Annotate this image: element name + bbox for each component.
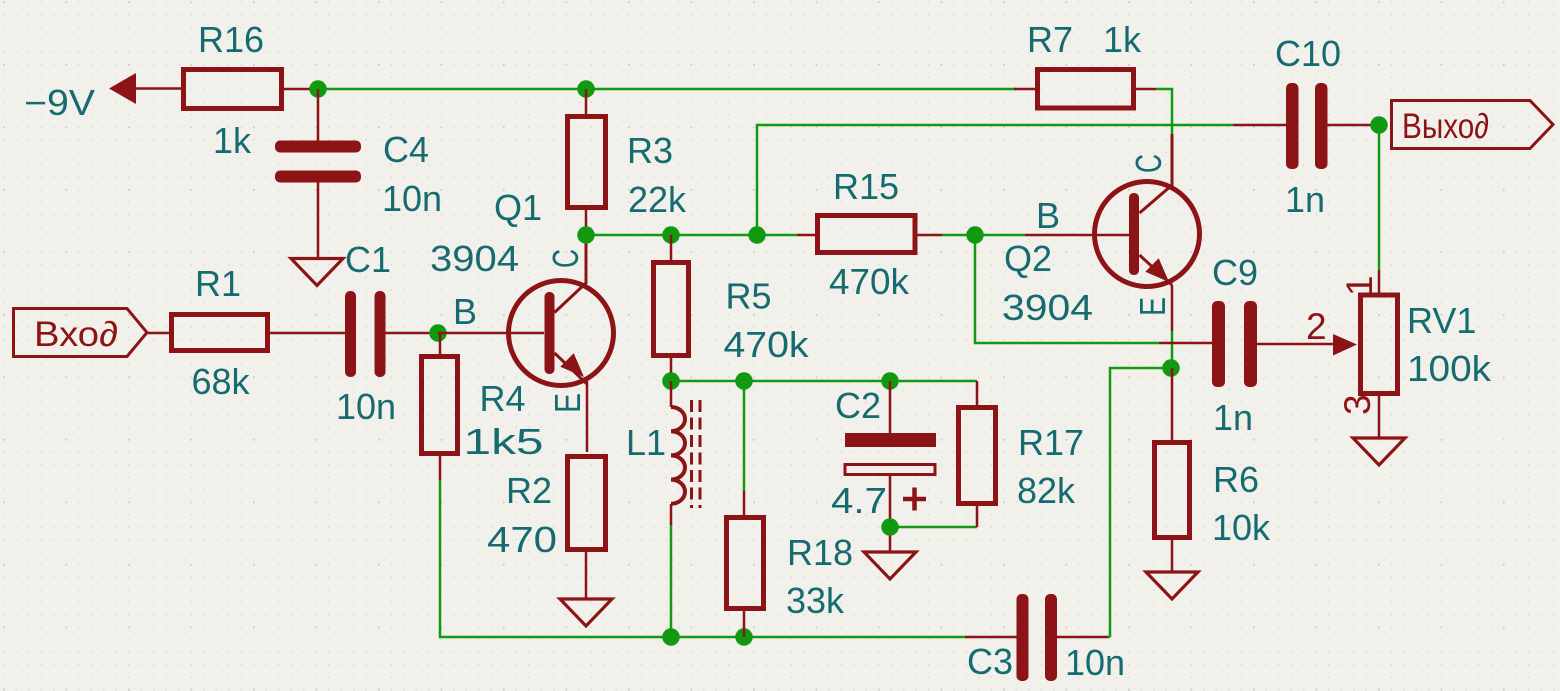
svg-text:1k: 1k [1103,19,1142,60]
wire emitter node to C3 riser [1110,368,1164,637]
svg-text:1n: 1n [1285,179,1325,220]
resistor R6 [1155,368,1272,572]
resistor R4 [422,333,544,480]
svg-text:3904: 3904 [430,238,519,279]
wire R18 top [743,389,746,491]
junction L1 bottom rail [662,628,680,646]
wire output node to RV1 pin1 [1378,125,1381,270]
svg-text:E: E [1132,297,1173,316]
svg-text:R4: R4 [479,378,525,419]
svg-text:E: E [547,393,588,413]
resistor R16 [184,19,319,161]
svg-text:1k: 1k [213,120,252,161]
hierarchical label Выход [1392,101,1554,149]
junction node B Q1 [429,324,447,342]
resistor R1 [147,263,345,402]
svg-text:1: 1 [1339,275,1380,296]
junction Q2 emitter node [1162,359,1180,377]
capacitor C10 [1233,33,1379,220]
ground below R2 [560,599,612,626]
svg-text:C4: C4 [383,129,429,170]
junction top rail / R3 [577,80,595,98]
svg-text:R5: R5 [726,276,772,317]
svg-text:1n: 1n [1213,397,1253,438]
junction L1 top [662,372,680,390]
hierarchical label Вход [14,309,148,357]
svg-text:Q1: Q1 [494,187,542,228]
ground below C4 [291,259,343,286]
wire C3 right to riser [1108,636,1110,639]
wire C2 to R17 bottom [890,526,977,529]
wire top rail [318,88,1016,91]
svg-text:10n: 10n [382,178,442,219]
junction Q2 base node [966,226,984,244]
ground below C2 [864,552,916,579]
capacitor C1 [336,239,438,427]
svg-text:R2: R2 [506,470,552,511]
svg-text:2: 2 [1306,306,1327,347]
junction R3/Q1 collector [577,226,595,244]
resistor R5 [654,235,810,381]
svg-text:R15: R15 [833,166,899,207]
resistor R7 [1014,19,1156,108]
resistor R15 [797,166,942,302]
svg-text:C: C [545,249,586,268]
ground below RV1 [1353,438,1405,465]
svg-text:82k: 82k [1017,470,1076,511]
svg-text:C3: C3 [967,641,1013,682]
capacitor C9 [1159,252,1334,438]
junction R5 top [662,226,680,244]
junction C2 top [881,372,899,390]
transistor Q1 [430,187,614,452]
svg-text:C10: C10 [1275,33,1341,74]
wire R15 to Q2 base [942,234,1025,237]
junction top rail / R16 / C4 [309,80,327,98]
capacitor C2 polarized [831,381,936,552]
svg-text:100k: 100k [1407,348,1492,389]
svg-text:R3: R3 [627,130,673,171]
wire mid rail y381 [671,380,977,383]
svg-text:RV1: RV1 [1407,300,1476,341]
transistor Q2 [1002,134,1200,331]
svg-text:10n: 10n [1065,642,1125,683]
svg-text:1k5: 1k5 [464,421,544,462]
svg-text:C: C [1128,154,1169,173]
svg-text:22k: 22k [628,179,687,220]
svg-text:C1: C1 [345,239,391,280]
svg-text:10k: 10k [1212,507,1271,548]
svg-text:C9: C9 [1212,252,1258,293]
wire R4 bottom to bottom rail [440,480,965,637]
potentiometer RV1 [1306,270,1492,438]
wire L1 bottom [670,525,673,637]
plus sign C2 [903,488,926,511]
junction C2 bottom [881,518,899,536]
svg-text:3: 3 [1337,394,1378,415]
svg-text:C2: C2 [835,385,881,426]
svg-text:R1: R1 [195,263,241,304]
wire base node down to C9 [975,235,1159,343]
svg-text:33k: 33k [786,580,845,621]
junction output node [1370,116,1388,134]
svg-text:−9V: −9V [24,82,95,123]
svg-text:L1: L1 [626,422,666,463]
svg-text:Вхо∂: Вхо∂ [34,315,118,354]
resistor R2 [487,457,606,600]
svg-text:R16: R16 [198,19,264,60]
junction R15 left [748,226,766,244]
svg-text:R7: R7 [1027,19,1073,60]
capacitor C3 [965,594,1125,683]
power symbol -9V [24,73,182,123]
svg-text:R6: R6 [1213,459,1259,500]
capacitor C4 [275,89,442,258]
svg-text:10n: 10n [336,386,396,427]
svg-text:3904: 3904 [1002,287,1093,328]
wire R7 to Q2 collector [1156,89,1172,134]
junction R18 top [735,372,753,390]
svg-text:Q2: Q2 [1004,238,1052,279]
resistor R3 [568,89,688,235]
svg-text:Выхо∂: Выхо∂ [1402,107,1489,146]
wire collector rail y235 [586,234,797,237]
junction R18 bottom rail [735,628,753,646]
svg-text:B: B [1036,195,1060,236]
resistor R17 [959,381,1085,527]
inductor L1 [626,381,700,525]
svg-text:R17: R17 [1018,422,1084,463]
svg-text:B: B [453,291,477,332]
wire Q2 emitter down [1171,331,1174,368]
svg-text:4.7: 4.7 [831,480,887,521]
svg-text:470k: 470k [829,261,910,302]
svg-text:R18: R18 [787,532,853,573]
resistor R18 [727,491,854,637]
svg-text:470: 470 [487,519,557,560]
ground below R6 [1146,572,1198,599]
svg-text:470k: 470k [724,324,810,365]
svg-text:68k: 68k [191,361,250,402]
wire feedback to C10 [757,125,1233,235]
